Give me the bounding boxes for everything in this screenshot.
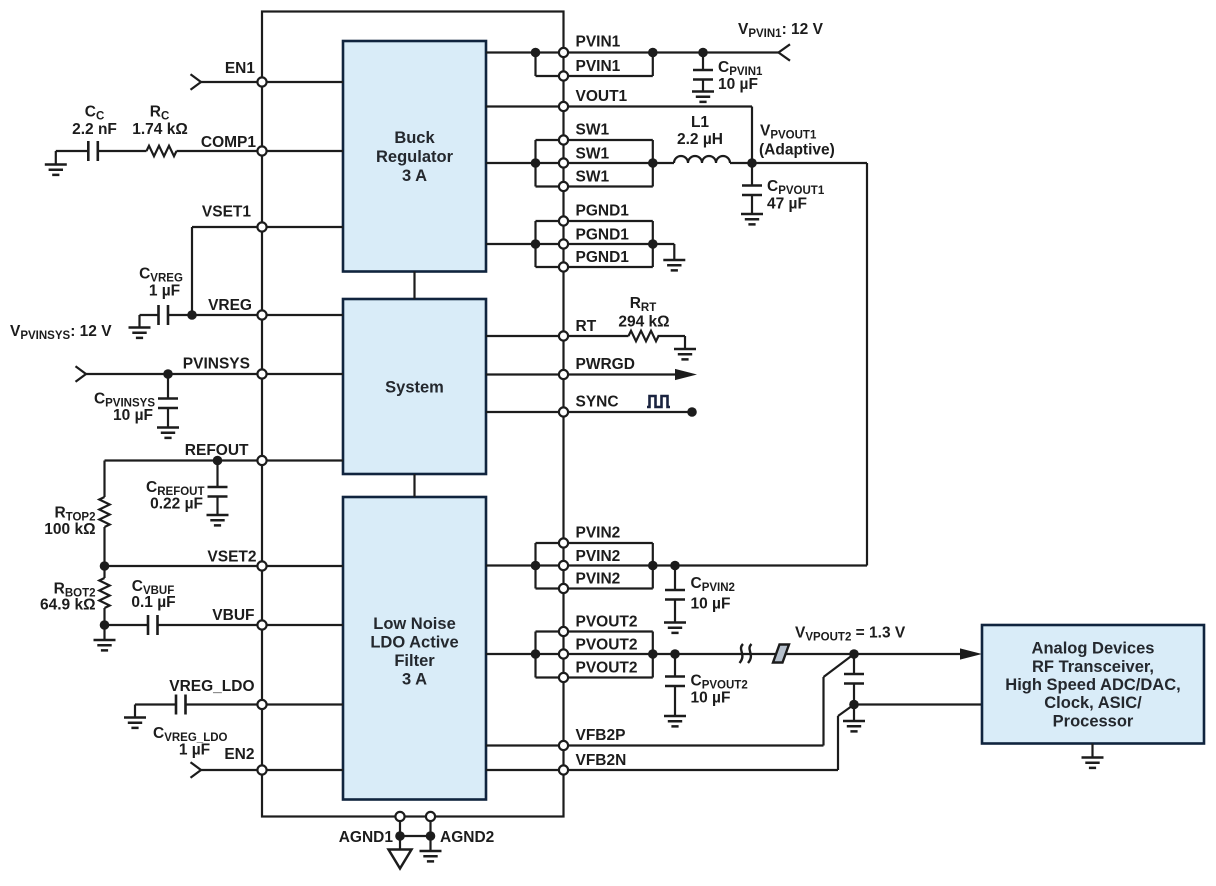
ground for CPVINSYS bbox=[157, 428, 179, 438]
label PVIN1 pin b bbox=[576, 58, 621, 75]
pin PVIN2 b bbox=[559, 561, 568, 570]
symbol trace-break marks bbox=[740, 644, 752, 663]
svg-text:PVOUT2: PVOUT2 bbox=[576, 614, 638, 631]
svg-text:VREG: VREG bbox=[208, 297, 252, 314]
wire adaptive rail down to PVIN2 bbox=[675, 163, 867, 566]
junction CREFOUT tap bbox=[213, 456, 223, 466]
capacitor CREFOUT 0.22 uF bbox=[146, 461, 227, 516]
capacitor CPVIN2 10 uF bbox=[665, 566, 735, 623]
wire PGND1 to ground bbox=[653, 244, 675, 260]
svg-text:VFB2P: VFB2P bbox=[576, 727, 626, 744]
ground for PGND1 bbox=[663, 260, 685, 270]
block Analog Devices load bbox=[982, 625, 1204, 744]
wire L1 to PVOUT1 node bbox=[730, 162, 867, 164]
label PVOUT2 pin a bbox=[576, 614, 638, 631]
node VPVIN1 supply arrow bbox=[779, 44, 791, 60]
ground for CPVIN2 bbox=[664, 623, 686, 633]
svg-text:PVIN2: PVIN2 bbox=[576, 525, 621, 542]
svg-text:EN1: EN1 bbox=[225, 60, 256, 77]
junction CPVIN2 tap bbox=[670, 561, 680, 571]
IC boundary box bbox=[262, 12, 564, 817]
wire CC to RC bbox=[98, 150, 147, 152]
wire RT bbox=[486, 335, 629, 337]
junction RBOT2/VBUF bbox=[100, 620, 110, 630]
svg-text:10 µF: 10 µF bbox=[113, 407, 153, 424]
pin SW1 a bbox=[559, 135, 568, 144]
block Low Noise LDO Active Filter 3 A bbox=[343, 497, 486, 800]
label VPVOUT1 Adaptive bbox=[759, 123, 835, 159]
svg-text:PGND1: PGND1 bbox=[576, 227, 630, 244]
pin VFB2P bbox=[559, 741, 568, 750]
label VOUT1 bbox=[576, 88, 628, 105]
ground for RRT bbox=[674, 349, 696, 359]
svg-text:0.1 µF: 0.1 µF bbox=[131, 594, 175, 611]
svg-text:1 µF: 1 µF bbox=[149, 283, 180, 300]
svg-text:PVIN1: PVIN1 bbox=[576, 58, 621, 75]
svg-text:2.2 nF: 2.2 nF bbox=[72, 121, 117, 138]
label VFB2N bbox=[576, 752, 627, 769]
svg-text:Low Noise: Low Noise bbox=[373, 615, 456, 633]
junction SW1 strap right bbox=[648, 158, 658, 168]
node EN1 input arrow bbox=[191, 74, 202, 90]
svg-text:3 A: 3 A bbox=[402, 167, 427, 185]
pin PVIN1 a bbox=[559, 48, 568, 57]
ground for RBOT2 bbox=[94, 625, 116, 650]
capacitor CPVOUT1 47 uF bbox=[742, 163, 825, 214]
svg-text:64.9 kΩ: 64.9 kΩ bbox=[40, 597, 96, 614]
inductor L1 2.2 uH bbox=[674, 114, 730, 163]
svg-text:High Speed ADC/DAC,: High Speed ADC/DAC, bbox=[1005, 676, 1180, 694]
junction PGND1 strap left bbox=[531, 239, 541, 249]
wire AGND2 stub bbox=[429, 817, 431, 837]
pin PVIN2 c bbox=[559, 584, 568, 593]
block System bbox=[343, 299, 486, 474]
label PVOUT2 pin c bbox=[576, 660, 638, 677]
pin PGND1 a bbox=[559, 216, 568, 225]
svg-text:1.74 kΩ: 1.74 kΩ bbox=[132, 121, 188, 138]
svg-text:COMP1: COMP1 bbox=[201, 134, 257, 151]
svg-text:47 µF: 47 µF bbox=[767, 196, 807, 213]
junction sense ground node bbox=[849, 700, 859, 710]
svg-text:PVOUT2: PVOUT2 bbox=[576, 637, 638, 654]
wire VSET1 bbox=[192, 227, 343, 315]
svg-text:L1: L1 bbox=[691, 114, 709, 131]
svg-text:(Adaptive): (Adaptive) bbox=[759, 142, 835, 159]
label PVOUT2 pin b bbox=[576, 637, 638, 654]
label VREG_LDO bbox=[169, 678, 254, 695]
label COMP1 bbox=[201, 134, 257, 151]
junction PVOUT2 strap left bbox=[531, 649, 541, 659]
wire VREG bbox=[168, 314, 343, 316]
svg-text:RF Transceiver,: RF Transceiver, bbox=[1032, 658, 1154, 676]
node PVINSYS input arrow bbox=[76, 366, 87, 382]
label VPVINSYS 12V bbox=[10, 323, 112, 342]
svg-text:SYNC: SYNC bbox=[576, 394, 619, 411]
pin PWRGD bbox=[559, 370, 568, 379]
wire VFB2N bbox=[486, 705, 854, 771]
wire VBUF bbox=[158, 624, 344, 626]
junction VSET1/VREG bbox=[187, 310, 197, 320]
label PWRGD bbox=[576, 356, 635, 373]
ground for load block bbox=[1082, 744, 1104, 768]
svg-text:1 µF: 1 µF bbox=[179, 742, 210, 759]
svg-text:Filter: Filter bbox=[394, 652, 435, 670]
svg-text:PVIN2: PVIN2 bbox=[576, 571, 621, 588]
wire PVINSYS bbox=[86, 373, 343, 375]
ground for CPVOUT1 bbox=[741, 214, 763, 224]
wire PVOUT2 main bbox=[486, 653, 960, 655]
junction CPVIN1 tap bbox=[698, 48, 708, 58]
wire VREG_LDO bbox=[186, 703, 344, 705]
junction VSET2 divider tap bbox=[100, 561, 110, 571]
svg-text:10 µF: 10 µF bbox=[718, 76, 758, 93]
junction PVIN2 strap right bbox=[648, 561, 658, 571]
symbol SYNC clock waveform bbox=[647, 396, 670, 407]
pin EN1 bbox=[257, 77, 266, 86]
ground for CPVOUT2 bbox=[664, 716, 686, 726]
svg-text:PGND1: PGND1 bbox=[576, 203, 630, 220]
svg-text:VOUT1: VOUT1 bbox=[576, 88, 628, 105]
svg-text:PWRGD: PWRGD bbox=[576, 356, 635, 373]
label PGND1 pin b bbox=[576, 227, 630, 244]
svg-text:PVIN1: PVIN1 bbox=[576, 34, 621, 51]
ferrite bead FB1 bbox=[773, 645, 789, 663]
label SW1 pin c bbox=[576, 169, 610, 186]
svg-text:AGND2: AGND2 bbox=[440, 829, 494, 846]
wire EN1 bbox=[201, 81, 343, 83]
ground for CPVIN1 bbox=[692, 92, 714, 102]
pin AGND1 bbox=[395, 812, 404, 821]
label PVIN2 pin b bbox=[576, 548, 621, 565]
svg-text:SW1: SW1 bbox=[576, 169, 610, 186]
pin REFOUT bbox=[257, 456, 266, 465]
resistor RBOT2 64.9 kOhm bbox=[40, 566, 110, 625]
wire PVIN2 main bbox=[486, 564, 675, 566]
label PVIN1 pin a bbox=[576, 34, 621, 51]
capacitor CPVOUT2 10 uF bbox=[665, 654, 748, 716]
label VREG bbox=[208, 297, 252, 314]
pin PVINSYS bbox=[257, 369, 266, 378]
svg-text:PVOUT2: PVOUT2 bbox=[576, 660, 638, 677]
label PVIN2 pin c bbox=[576, 571, 621, 588]
pin PGND1 b bbox=[559, 239, 568, 248]
svg-text:PGND1: PGND1 bbox=[576, 249, 630, 266]
label PVIN2 pin a bbox=[576, 525, 621, 542]
junction AGND1 bbox=[395, 831, 405, 841]
svg-text:LDO Active: LDO Active bbox=[370, 634, 458, 652]
svg-text:PVIN2: PVIN2 bbox=[576, 548, 621, 565]
pin strap PVIN2 triple bbox=[536, 543, 653, 589]
wire CVREG to ground bbox=[140, 315, 159, 328]
pin PVIN1 b bbox=[559, 71, 568, 80]
wire VSET2 bbox=[105, 565, 344, 567]
junction PVIN1 strap left bbox=[531, 48, 541, 58]
label EN1 bbox=[225, 60, 256, 77]
svg-text:100 kΩ: 100 kΩ bbox=[44, 521, 95, 538]
junction VPOUT2 sense node bbox=[849, 649, 859, 659]
svg-text:Processor: Processor bbox=[1053, 712, 1134, 730]
capacitor CVREG 1 uF bbox=[139, 266, 183, 326]
label AGND1 bbox=[339, 829, 394, 846]
svg-text:SW1: SW1 bbox=[576, 122, 610, 139]
pin PGND1 c bbox=[559, 262, 568, 271]
svg-text:Clock, ASIC/: Clock, ASIC/ bbox=[1044, 694, 1142, 712]
node SYNC termination bbox=[687, 407, 697, 417]
svg-text:AGND1: AGND1 bbox=[339, 829, 394, 846]
junction PVOUT1 node bbox=[747, 158, 757, 168]
svg-text:294 kΩ: 294 kΩ bbox=[618, 314, 669, 331]
wire EN2 bbox=[201, 769, 343, 771]
wire RRT to ground bbox=[658, 336, 686, 349]
pin VREG bbox=[257, 310, 266, 319]
svg-text:VREG_LDO: VREG_LDO bbox=[169, 678, 254, 695]
label PVINSYS bbox=[183, 356, 250, 373]
pin strap PGND1 triple bbox=[536, 221, 653, 267]
pin VOUT1 bbox=[559, 102, 568, 111]
svg-text:Analog Devices: Analog Devices bbox=[1032, 640, 1155, 658]
junction CPVOUT2 tap bbox=[670, 649, 680, 659]
wire sense return to load bbox=[854, 703, 982, 705]
wire PWRGD bbox=[486, 373, 676, 375]
label RT bbox=[576, 318, 597, 335]
svg-text:10 µF: 10 µF bbox=[691, 596, 731, 613]
svg-text:Buck: Buck bbox=[394, 129, 435, 147]
svg-text:EN2: EN2 bbox=[224, 746, 254, 763]
wire PGND1 main bbox=[486, 243, 653, 245]
resistor RRT 294 kOhm bbox=[618, 295, 669, 341]
label VFB2P bbox=[576, 727, 626, 744]
svg-text:VFB2N: VFB2N bbox=[576, 752, 627, 769]
pin strap PVOUT2 triple bbox=[536, 632, 653, 678]
wire VOUT1 bbox=[486, 107, 752, 164]
node PWRGD output arrow bbox=[675, 369, 697, 380]
label SYNC bbox=[576, 394, 619, 411]
pin VSET1 bbox=[257, 222, 266, 231]
pin VFB2N bbox=[559, 765, 568, 774]
pin PVOUT2 b bbox=[559, 649, 568, 658]
label SW1 pin b bbox=[576, 146, 610, 163]
pin SW1 b bbox=[559, 158, 568, 167]
capacitor point-of-load sense bbox=[844, 654, 864, 705]
label REFOUT bbox=[185, 442, 249, 459]
wire AGND tie bbox=[400, 835, 431, 837]
junction SW1 strap left bbox=[531, 158, 541, 168]
pin VBUF bbox=[257, 620, 266, 629]
pin SYNC bbox=[559, 407, 568, 416]
resistor RC 1.74 kOhm bbox=[132, 104, 188, 157]
wire SW1 main bbox=[486, 162, 674, 164]
pin RT bbox=[559, 331, 568, 340]
pin strap SW1 triple bbox=[536, 140, 653, 187]
ground for CVREG bbox=[129, 328, 151, 338]
ground for CREFOUT bbox=[207, 515, 229, 525]
wire REFOUT bbox=[105, 459, 344, 461]
svg-text:VSET1: VSET1 bbox=[202, 204, 251, 221]
resistor RTOP2 100 kOhm bbox=[44, 461, 109, 567]
node output arrow into load bbox=[960, 648, 982, 659]
wire AGND1 stub bbox=[399, 817, 401, 837]
junction PVIN2 strap left bbox=[531, 561, 541, 571]
ground AGND2 bbox=[420, 836, 442, 861]
block Buck Regulator 3 A bbox=[343, 41, 486, 272]
capacitor CC 2.2 nF bbox=[72, 104, 117, 162]
svg-text:10 µF: 10 µF bbox=[691, 690, 731, 707]
junction PVIN1 strap right bbox=[648, 48, 658, 58]
wire SYNC bbox=[486, 411, 692, 413]
label PGND1 pin a bbox=[576, 203, 630, 220]
capacitor CVREG_LDO 1 uF bbox=[153, 695, 228, 759]
svg-text:RT: RT bbox=[576, 318, 597, 335]
wire ground to CC bbox=[56, 150, 89, 152]
pin strap PVIN1 pair bbox=[536, 53, 653, 77]
pin PVOUT2 a bbox=[559, 627, 568, 636]
label EN2 bbox=[224, 746, 254, 763]
junction AGND2 bbox=[426, 831, 436, 841]
svg-text:VSET2: VSET2 bbox=[207, 549, 256, 566]
pin VREG_LDO bbox=[257, 700, 266, 709]
pin PVIN2 a bbox=[559, 538, 568, 547]
capacitor CVBUF 0.1 uF bbox=[131, 578, 175, 635]
pin EN2 bbox=[257, 765, 266, 774]
svg-text:VBUF: VBUF bbox=[212, 607, 254, 624]
wire VFB2P bbox=[486, 654, 854, 746]
junction CPVINSYS tap bbox=[163, 369, 173, 379]
svg-text:System: System bbox=[385, 379, 444, 397]
wire COMP1 bbox=[177, 150, 344, 152]
ground for CC bbox=[45, 151, 67, 175]
label VVPOUT2 1.3V bbox=[795, 625, 906, 644]
pin SW1 c bbox=[559, 182, 568, 191]
ground AGND1 analog ground triangle bbox=[389, 836, 412, 869]
label SW1 pin a bbox=[576, 122, 610, 139]
wire PVIN1 main bbox=[486, 51, 779, 53]
svg-text:0.22 µF: 0.22 µF bbox=[150, 496, 203, 513]
label PGND1 pin c bbox=[576, 249, 630, 266]
ground for CVREG_LDO bbox=[124, 705, 146, 728]
pin PVOUT2 c bbox=[559, 673, 568, 682]
wire Buck-System connector bbox=[413, 272, 415, 300]
capacitor CPVINSYS 10 uF bbox=[94, 374, 178, 428]
pin VSET2 bbox=[257, 561, 266, 570]
junction PGND1 strap right bbox=[648, 239, 658, 249]
svg-text:3 A: 3 A bbox=[402, 671, 427, 689]
wire ground to CVREG_LDO bbox=[135, 703, 176, 705]
wire System-LDO connector bbox=[413, 474, 415, 497]
wire VBUF left bbox=[105, 624, 149, 626]
svg-text:2.2 µH: 2.2 µH bbox=[677, 131, 723, 148]
label AGND2 bbox=[440, 829, 494, 846]
ground for sense capacitor bbox=[843, 705, 865, 732]
label VSET2 bbox=[207, 549, 256, 566]
junction PVOUT2 strap right bbox=[648, 649, 658, 659]
svg-text:Regulator: Regulator bbox=[376, 148, 454, 166]
node EN2 input arrow bbox=[191, 762, 202, 778]
svg-text:PVINSYS: PVINSYS bbox=[183, 356, 250, 373]
capacitor CPVIN1 10 uF bbox=[693, 53, 763, 94]
label VBUF bbox=[212, 607, 254, 624]
label VSET1 bbox=[202, 204, 251, 221]
svg-text:SW1: SW1 bbox=[576, 146, 610, 163]
pin AGND2 bbox=[426, 812, 435, 821]
label VPVIN1 12V bbox=[738, 21, 824, 40]
pin COMP1 bbox=[257, 146, 266, 155]
